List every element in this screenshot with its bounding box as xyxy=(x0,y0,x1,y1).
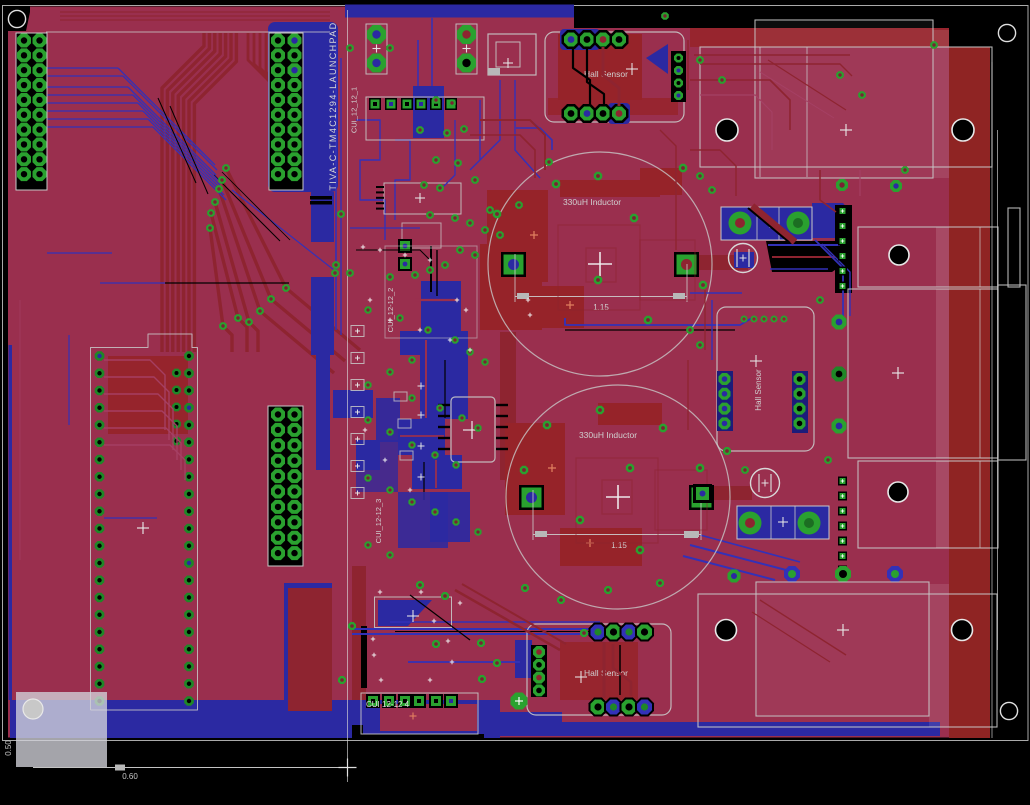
crosses middle column xyxy=(418,385,425,387)
terminal body mid big box xyxy=(848,289,998,458)
vias right mid xyxy=(832,315,847,330)
wire blue bundle to hall2 xyxy=(408,661,520,663)
header J2 body on launchpad xyxy=(269,33,303,190)
wire blue trace top middle verticals xyxy=(417,40,419,86)
blue left edge sliver xyxy=(9,345,13,700)
dimension 1.15 inductor L1 xyxy=(515,296,687,298)
power module PM2 pad right xyxy=(798,512,821,535)
hall sensor top pads row1 xyxy=(562,30,581,49)
via chain upper left xyxy=(222,164,230,172)
svg-text:Hall Sensor: Hall Sensor xyxy=(754,369,763,411)
transistor Q1 xyxy=(394,392,407,401)
wire thin top edge traces xyxy=(60,11,330,13)
wire texture right of hall top xyxy=(687,40,689,90)
fiducial squares column xyxy=(351,326,364,337)
blue pour bottom middle block xyxy=(284,583,332,723)
dark patch inductor1 bottom xyxy=(528,286,584,328)
dark patch inductor1 left blob xyxy=(487,190,548,282)
blue wedge hall top right xyxy=(646,44,668,74)
blue blob left of bottom hall sensor xyxy=(515,640,532,678)
wire blue trace inductor1 top xyxy=(516,128,552,150)
wire dark traces upper middle xyxy=(480,120,545,170)
wire texture left region xyxy=(19,300,21,560)
silk line launchpad top xyxy=(46,31,330,33)
dark patch inductor2 top xyxy=(598,403,662,425)
connector CUI_12_12_4 box xyxy=(361,693,478,734)
thin trace rects inductor1 xyxy=(558,225,640,310)
vias scattered middle xyxy=(364,306,371,313)
right off-board terminal body band xyxy=(949,47,990,738)
thick trace to cap C1 xyxy=(694,255,748,270)
vias inductor2 area xyxy=(543,421,551,429)
power module PM2 blue body xyxy=(737,506,829,539)
hall bottom interior traces xyxy=(603,642,606,698)
blue pour middle arm xyxy=(333,390,373,418)
wire blue vertical left xyxy=(68,335,70,425)
blue column below launchpad xyxy=(311,192,334,242)
header JP2 2-pin xyxy=(456,24,477,74)
blue strip bottom right edge xyxy=(484,722,940,736)
dimension 1.15 inductor L2 xyxy=(533,534,701,536)
red veins over blue pour xyxy=(415,299,458,301)
blue pour behind hall top pads xyxy=(560,29,600,50)
svg-text:TIVA-C-TM4C1294-LAUNCHPAD: TIVA-C-TM4C1294-LAUNCHPAD xyxy=(328,21,338,190)
blue blob top middle xyxy=(413,86,444,138)
dimension line bottom horizontal xyxy=(33,767,347,769)
hall right pads column right xyxy=(792,371,808,433)
vias right hall surroundings xyxy=(686,326,694,334)
terminal T2 outline xyxy=(858,227,998,287)
vias inductor1 area xyxy=(552,180,560,188)
hall sensor bottom outline xyxy=(527,624,671,715)
blue pour bottom left band xyxy=(10,700,500,738)
svg-text:1.15: 1.15 xyxy=(611,541,627,550)
wire texture inductor1 rings xyxy=(586,248,616,282)
mounting hole top-right xyxy=(998,24,1015,41)
black pour region below PM1 xyxy=(766,241,849,272)
dimension cross bottom xyxy=(339,767,357,769)
wire blue bottom bundle xyxy=(352,628,642,630)
vias bottom middle xyxy=(432,640,440,648)
black diag details bottom xyxy=(410,595,470,640)
hall right pads column left xyxy=(717,371,733,431)
connector CUI_12_12_1 pads xyxy=(369,98,381,110)
socket U1 pads column A xyxy=(95,351,105,361)
wire bundle top-left verticals xyxy=(162,33,204,352)
svg-text:0.60: 0.60 xyxy=(122,772,138,781)
inductor L1 pad left xyxy=(501,252,526,277)
selected part hole xyxy=(23,699,43,719)
gray tab left of cap C2 xyxy=(684,531,698,538)
blue wedge right of power module PM1 xyxy=(812,203,849,238)
wire blue fan from left header xyxy=(46,67,118,69)
wire blue verticals top middle xyxy=(335,40,337,330)
header J3 pads xyxy=(271,408,285,422)
svg-text:0.50: 0.50 xyxy=(4,740,13,756)
power module PM1 dark stripe xyxy=(752,206,795,242)
pads P1 pair xyxy=(398,239,412,253)
mcu M1 box xyxy=(375,597,452,628)
hall sensor bottom pads row1 xyxy=(589,623,608,642)
wire blue traces over black region xyxy=(768,244,840,246)
socket U1 outline xyxy=(91,334,198,710)
black clearance bottom middle xyxy=(352,725,484,739)
vias trio above bottom terminal xyxy=(784,566,800,582)
blue wedge in bottom mcu box xyxy=(378,600,432,626)
dark vertical strip bottom middle xyxy=(352,566,366,736)
dark patch top-right strip xyxy=(690,28,949,47)
dimension vertical line x=347 xyxy=(347,10,349,782)
wire bundle from header fan top xyxy=(248,33,300,160)
terminal T1 inner dividers xyxy=(759,47,761,177)
cross inductor L2 center xyxy=(606,496,630,498)
blue pour in middle column lower xyxy=(398,492,448,548)
wire texture inductor2 rings xyxy=(602,480,632,514)
header J2 pads xyxy=(271,34,285,48)
power module PM1 pad left xyxy=(729,212,752,235)
cross terminal T1 xyxy=(840,129,852,131)
svg-text:Hall Sensor: Hall Sensor xyxy=(584,668,628,678)
header J1 pads xyxy=(17,34,31,48)
wire long horizontal mid-left xyxy=(100,282,165,284)
terminal T1 hole left xyxy=(716,119,738,141)
vias pair above terminals xyxy=(728,570,741,583)
socket U1 pink trace fan xyxy=(104,360,165,430)
salmon cross L1 b xyxy=(566,304,574,306)
terminal T1 body overlay xyxy=(933,30,949,178)
wire dark trace over black region xyxy=(772,256,835,258)
IC U3 box xyxy=(451,397,495,462)
socket U1 inner pads xyxy=(172,369,181,378)
via chain lower left xyxy=(282,284,290,292)
inductor L1 circle xyxy=(488,152,712,376)
inductor L2 pad right xyxy=(689,485,714,510)
IC U2 box xyxy=(384,183,461,214)
power module PM2 pad left xyxy=(739,512,762,535)
dark patch inductor1 right xyxy=(640,168,682,195)
inductor L1 pad right xyxy=(674,252,699,277)
transistor Q2 xyxy=(398,419,411,428)
dark patch socket interior xyxy=(108,356,188,434)
right edge silk verticals xyxy=(991,62,993,738)
black bars below launchpad xyxy=(310,196,332,200)
terminal inner silk dividers xyxy=(979,227,981,287)
mounting hole top-left xyxy=(8,10,25,27)
hall sensor right outline xyxy=(717,307,814,451)
terminal T4 hole right xyxy=(952,620,973,641)
wire blue traces top middle extra xyxy=(470,80,500,170)
selected part overlay bottom-left xyxy=(16,692,107,767)
transistor Q3 xyxy=(400,451,413,460)
header J1 body xyxy=(16,33,47,190)
silk box below U2 xyxy=(402,223,441,248)
inductor L2 circle xyxy=(506,385,730,609)
header JP1 2-pin xyxy=(366,24,387,74)
via column x843 top set xyxy=(838,207,847,216)
pad square green left of PM2 xyxy=(693,484,712,503)
header J3 body xyxy=(268,406,303,566)
connector CUI_12_12_1 box xyxy=(366,97,484,140)
wire blue into hall right xyxy=(690,292,742,294)
black vein lines middle xyxy=(430,246,432,292)
salmon cross bottom xyxy=(410,715,417,717)
dark patch inductor1 top xyxy=(560,180,660,197)
blue region under CUI 12-12 4 xyxy=(363,700,478,734)
hall bottom dark interior xyxy=(560,642,638,700)
power module PM1 blue body xyxy=(721,207,812,240)
power module PM1 pad right xyxy=(787,212,810,235)
wire texture top right xyxy=(694,54,850,56)
blue pour middle fragmented xyxy=(421,281,461,333)
big green pad with cross xyxy=(511,693,528,710)
top edge black clearance right section xyxy=(574,7,949,29)
hall right small pads row xyxy=(741,316,748,323)
terminal T1 hole right xyxy=(952,119,974,141)
svg-text:CUI_12_12_1: CUI_12_12_1 xyxy=(350,87,359,133)
hall bottom pads column xyxy=(531,645,547,697)
terminal T4 outer outline xyxy=(698,594,997,727)
wire blue traces middle squiggles xyxy=(356,120,385,240)
blue bar over outline xyxy=(345,5,574,17)
thin trace rects inductor2 xyxy=(576,458,658,543)
salmon cross L2 a xyxy=(548,467,556,469)
wire black diagonals top-left xyxy=(158,98,196,183)
blue bar top xyxy=(345,5,574,18)
IC U3 pins left xyxy=(438,404,450,406)
svg-text:CUI_12-12_3: CUI_12-12_3 xyxy=(374,499,383,544)
svg-text:CUI 12-12 4: CUI 12-12 4 xyxy=(366,700,410,709)
wire blue horiz bottom-left xyxy=(104,517,157,519)
hall sensor top pads row2 xyxy=(562,104,581,123)
solder dots middle column xyxy=(361,246,365,248)
svg-text:CUI_12-12_2: CUI_12-12_2 xyxy=(386,288,395,333)
cross socket center xyxy=(137,527,149,529)
wire texture mid right of inductors xyxy=(711,300,713,360)
svg-text:330uH Inductor: 330uH Inductor xyxy=(563,197,621,207)
IC U2 pins xyxy=(376,186,384,188)
socket U1 pads column B xyxy=(184,351,194,361)
terminal T1 outer outline xyxy=(700,47,992,167)
cross inductor L1 center xyxy=(588,263,612,265)
terminal T4 body overlay xyxy=(929,584,949,727)
salmon cross L1 a xyxy=(530,234,538,236)
wire blue traces right module to via column xyxy=(815,240,843,318)
svg-text:330uH Inductor: 330uH Inductor xyxy=(579,430,637,440)
hall sensor bottom pads row2 xyxy=(589,698,608,717)
blue patch behind round cap1 xyxy=(734,252,754,268)
terminal T1 inner outline xyxy=(755,20,933,178)
wire texture terminal T4 diagonals xyxy=(760,600,846,655)
via column x843 bottom set xyxy=(838,477,847,486)
capacitor C1 round xyxy=(729,244,758,273)
connector CUI_12_12_4 pads xyxy=(366,694,380,708)
dark patch inductor2 left blob xyxy=(505,423,565,515)
capacitor C2 round xyxy=(751,469,780,498)
launchpad blue pour xyxy=(268,22,338,192)
terminal T2 hole xyxy=(889,245,909,265)
pad square left of cap C1 xyxy=(679,254,695,270)
top-left corner black clearance xyxy=(8,7,30,32)
dark vertical strip mid board xyxy=(500,332,516,480)
salmon cross L2 b xyxy=(586,542,594,544)
IC U3 pins right xyxy=(496,404,508,406)
hall top right pad column xyxy=(671,51,686,102)
cross terminal T4 xyxy=(837,629,849,631)
svg-text:1.15: 1.15 xyxy=(593,303,609,312)
cross mid body xyxy=(892,372,904,374)
dark patch inductor2 bottom xyxy=(560,528,642,566)
hall top dark interior xyxy=(558,34,642,100)
vias top right area xyxy=(696,56,704,64)
hall sensor top outline xyxy=(545,32,684,122)
terminal T4 hole left xyxy=(716,620,737,641)
connector CUI_12_12_2 box xyxy=(385,246,477,338)
wire blue diagonals right of inductor2 xyxy=(690,545,786,570)
terminal T4 inner outline xyxy=(756,582,929,716)
vias scattered middle top xyxy=(346,44,354,52)
hall top dark traces xyxy=(573,47,590,106)
inductor L2 pad left xyxy=(519,485,544,510)
wire blue trace bottom of inductor1 xyxy=(565,318,752,325)
mounting hole bottom-right xyxy=(1000,702,1017,719)
bracket connector right edge xyxy=(998,285,1026,460)
silk square top middle xyxy=(488,34,536,75)
thick trace to cap C2 xyxy=(694,486,752,500)
wire bundle diagonal to via chains xyxy=(226,168,360,350)
terminal T3 outline xyxy=(858,461,998,548)
wire blue short mid-left xyxy=(47,252,112,254)
terminal T2 body overlay xyxy=(936,227,949,287)
wire texture terminal T1 diagonals xyxy=(768,60,846,110)
terminal T3 hole xyxy=(888,482,908,502)
